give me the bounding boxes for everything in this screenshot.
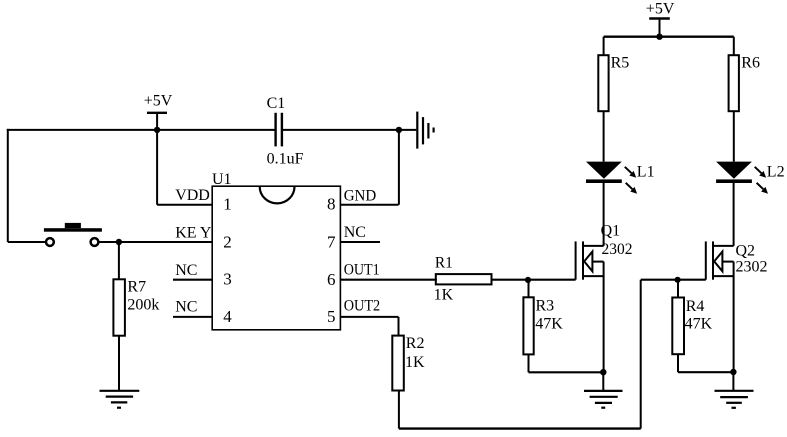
svg-text:NC: NC <box>175 299 197 316</box>
svg-text:Q1: Q1 <box>601 223 621 240</box>
svg-text:200k: 200k <box>127 297 159 314</box>
svg-text:NC: NC <box>344 224 366 241</box>
svg-text:R5: R5 <box>611 54 630 71</box>
svg-text:+5V: +5V <box>144 93 173 110</box>
svg-text:47K: 47K <box>535 315 563 332</box>
svg-text:OUT1: OUT1 <box>344 261 380 278</box>
svg-text:6: 6 <box>327 270 336 289</box>
svg-text:5: 5 <box>327 307 336 326</box>
svg-text:R7: R7 <box>127 279 146 296</box>
svg-text:7: 7 <box>327 233 336 252</box>
svg-text:R1: R1 <box>435 255 453 272</box>
svg-text:47K: 47K <box>685 316 713 333</box>
svg-text:0.1uF: 0.1uF <box>267 151 304 168</box>
svg-text:VDD: VDD <box>175 187 210 204</box>
svg-text:L1: L1 <box>637 164 655 181</box>
svg-text:1K: 1K <box>434 287 454 304</box>
svg-text:Q2: Q2 <box>736 242 756 259</box>
svg-text:KE Y: KE Y <box>175 225 212 242</box>
svg-text:OUT2: OUT2 <box>344 298 381 315</box>
svg-text:4: 4 <box>223 307 232 326</box>
svg-text:1K: 1K <box>405 354 425 371</box>
svg-text:8: 8 <box>327 195 336 214</box>
svg-text:U1: U1 <box>212 171 232 188</box>
svg-text:+5V: +5V <box>646 1 675 18</box>
svg-text:1: 1 <box>223 195 232 214</box>
svg-text:R6: R6 <box>741 54 760 71</box>
svg-text:NC: NC <box>175 262 197 279</box>
svg-text:R2: R2 <box>406 335 425 352</box>
svg-text:C1: C1 <box>267 95 286 112</box>
svg-text:R4: R4 <box>686 298 705 315</box>
svg-text:2302: 2302 <box>736 259 768 276</box>
svg-text:2: 2 <box>223 233 232 252</box>
svg-text:2302: 2302 <box>602 241 633 258</box>
svg-text:3: 3 <box>223 269 232 288</box>
svg-text:GND: GND <box>344 188 377 205</box>
svg-text:R3: R3 <box>536 298 555 315</box>
svg-text:L2: L2 <box>767 164 785 181</box>
